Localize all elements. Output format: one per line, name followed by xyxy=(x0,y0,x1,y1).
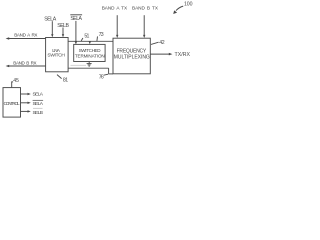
svg-text:100: 100 xyxy=(184,1,193,7)
svg-text:MULTIPLEXING: MULTIPLEXING xyxy=(114,55,150,61)
svg-text:81: 81 xyxy=(63,77,68,83)
svg-text:SWITCH: SWITCH xyxy=(47,52,65,58)
svg-text:BAND B TX: BAND B TX xyxy=(132,6,159,11)
svg-text:TERMINATION: TERMINATION xyxy=(75,53,105,58)
svg-text:51: 51 xyxy=(84,33,89,39)
svg-text:SELA: SELA xyxy=(70,16,82,22)
svg-text:BAND A RX: BAND A RX xyxy=(14,32,37,37)
svg-text:45: 45 xyxy=(13,78,19,84)
svg-text:SELA: SELA xyxy=(33,101,44,107)
svg-text:BAND B RX: BAND B RX xyxy=(13,60,36,65)
svg-text:FREQUENCY: FREQUENCY xyxy=(117,48,147,54)
svg-text:73: 73 xyxy=(99,32,104,38)
svg-text:SELA: SELA xyxy=(33,91,44,97)
svg-text:42: 42 xyxy=(159,40,164,46)
svg-text:CONTROL: CONTROL xyxy=(4,101,21,106)
svg-text:SELB: SELB xyxy=(33,110,44,116)
svg-text:SWITCHED: SWITCHED xyxy=(79,48,102,53)
svg-text:SELB: SELB xyxy=(57,23,69,29)
svg-text:76: 76 xyxy=(99,75,104,81)
svg-text:TX/RX: TX/RX xyxy=(175,52,191,58)
svg-text:BAND A TX: BAND A TX xyxy=(102,6,128,11)
svg-text:SELA: SELA xyxy=(44,17,57,23)
